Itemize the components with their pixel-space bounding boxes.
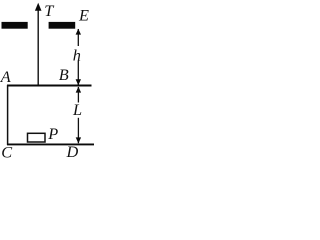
dimension line L: up arrowhead: [76, 87, 81, 93]
dimension line L: upper segment: [77, 87, 79, 103]
svg-text:E: E: [78, 6, 89, 25]
block P on floor: [28, 133, 46, 142]
svg-text:h: h: [73, 46, 81, 65]
dimension line h: lower segment: [77, 61, 79, 86]
svg-text:D: D: [66, 142, 79, 159]
ceiling bar left (support E): [2, 22, 28, 29]
dimension line L: lower segment: [77, 118, 79, 143]
dimension line L: down arrowhead: [76, 137, 81, 143]
tension arrow T: head: [35, 3, 42, 11]
dimension line h: up arrowhead: [76, 29, 81, 35]
svg-text:C: C: [1, 142, 13, 159]
box bottom edge C-D: [7, 143, 94, 145]
dimension line h: upper segment: [77, 29, 79, 46]
svg-text:A: A: [0, 67, 11, 86]
svg-text:B: B: [59, 65, 69, 84]
svg-text:L: L: [72, 100, 82, 119]
svg-text:T: T: [44, 1, 55, 20]
tension arrow T: shaft: [37, 10, 39, 86]
box top edge A-B: [7, 85, 92, 87]
svg-text:P: P: [47, 124, 58, 143]
box left edge A-C: [7, 85, 9, 145]
dimension line h: down arrowhead: [76, 79, 81, 85]
ceiling bar right (support E): [49, 22, 76, 29]
